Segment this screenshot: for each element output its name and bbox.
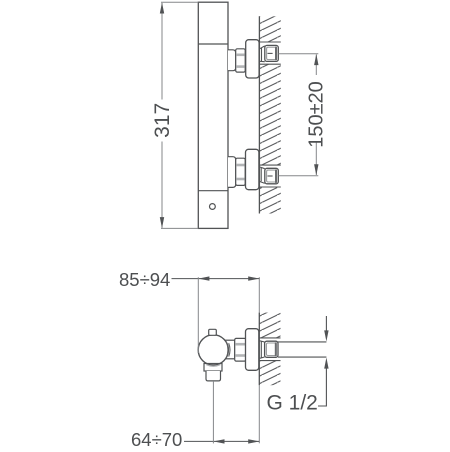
cutout top boundary [259,337,280,339]
union B chamfer [260,167,265,183]
union B center line [268,175,273,177]
dim 317 bottom extension [161,227,198,229]
dim G1/2 upper shaft [325,316,327,332]
dim 64÷70 arrow left [213,439,224,443]
svg-text:85÷94: 85÷94 [119,269,170,290]
wall hatch middle band [259,64,280,165]
wall extension line (lower) [258,385,260,443]
valve nut [235,338,246,361]
union B nut [265,168,279,184]
dim 150±20 line upper segment [315,55,317,76]
outlet nozzle [206,371,221,381]
knob button [209,329,217,335]
dim 150±20 arrow down [314,164,318,175]
outlet flange [204,364,222,372]
dim 150±20 line lower segment [315,142,317,175]
dim 64÷70 leader [184,440,259,442]
wall hatch lower band [259,361,280,386]
collar arcs [226,342,230,358]
wall surface line [258,313,260,386]
union B pipe centerline extension [279,175,319,177]
fitting B cover plate [246,149,259,189]
union B nut inner bevel [267,170,277,182]
dim 64÷70 arrow right [248,439,259,443]
dim 85÷94 leader [172,278,260,280]
bar bottom section line [198,190,228,192]
knob collar [224,340,235,359]
inlet nut [265,341,278,357]
fitting B stub [228,157,236,188]
dim 317 arrow down [160,217,164,228]
dim 85÷94 arrow right [248,276,259,280]
union A pipe centerline extension [279,53,319,55]
union A chamfer [260,46,265,62]
svg-text:317: 317 [151,103,174,138]
dim 85÷94 left extension [197,277,199,353]
cutout bottom boundary [259,360,280,362]
union A nut [265,45,279,61]
bar top section line [198,43,228,45]
screw hole [210,204,216,210]
dim 85÷94 arrow left [198,276,209,280]
dim G1/2 arrow down [324,330,328,341]
wall hatch upper band [259,16,280,42]
fitting B nut shading bands [236,164,244,167]
outlet flange shade arc [206,365,220,367]
wall hatch upper band [259,313,280,338]
supply pipe bottom line [278,356,326,358]
mixer body bar [198,2,228,228]
wall extension line (upper) [258,277,260,312]
dim 317 line lower segment [161,142,163,228]
dim G1/2 arrow up [324,358,328,369]
inlet chamfer [260,341,265,359]
dim 64÷70 left extension [212,381,214,443]
fitting A nut shading bands [236,53,244,56]
svg-text:64÷70: 64÷70 [131,429,182,450]
union A nut right shade [275,47,277,61]
cutout A top boundary [259,41,280,43]
supply pipe top line [278,341,326,343]
bottom cover plate [246,329,259,371]
dim 317 line upper segment [161,3,163,100]
dim 317 arrow up [160,2,164,13]
valve nut shading bands [235,343,245,346]
cutout B top boundary [259,164,280,166]
svg-text:150±20: 150±20 [306,81,328,148]
wall hatch lower band [259,187,280,214]
fitting B nut [236,158,246,185]
cutout A bottom boundary [259,63,280,65]
dim 150±20 arrow up [314,54,318,65]
inlet nut inner bevel [266,343,276,356]
inlet nut right shade [275,342,277,356]
knob circle [198,335,228,365]
cutout B bottom boundary [259,186,280,188]
fitting A stub [228,50,236,71]
dim G1/2 lower shaft and leader [318,368,326,407]
union A nut inner bevel [267,47,277,59]
dim 317 top extension [161,1,198,3]
svg-text:G 1/2: G 1/2 [267,392,318,415]
union B nut right shade [275,170,277,183]
fitting A nut [236,49,246,72]
fitting A cover plate [246,40,259,78]
wall surface line [258,16,260,213]
union A center line [268,52,273,54]
